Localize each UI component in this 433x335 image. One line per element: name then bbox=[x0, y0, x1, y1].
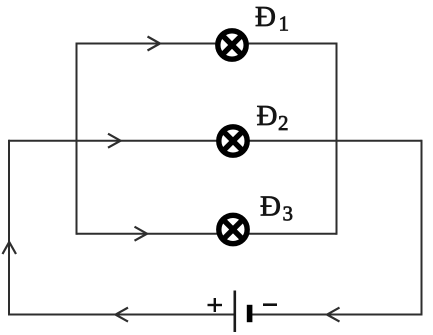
wire: outer right vertical (from middle branch down to battery - wire) bbox=[421, 140, 423, 316]
svg-text:Đ: Đ bbox=[260, 191, 281, 223]
lamp D2 (circle with X) bbox=[219, 127, 247, 155]
current arrow on bottom wire right, pointing left bbox=[327, 308, 340, 322]
wire: top branch left segment (node A to lamp D1) bbox=[77, 43, 219, 45]
svg-text:Đ: Đ bbox=[255, 1, 276, 33]
label D3 bbox=[260, 191, 293, 226]
lamp D1 (circle with X) bbox=[218, 31, 246, 59]
wire: outer left vertical (from middle branch down to battery + wire) bbox=[8, 140, 10, 316]
battery polarity label - bbox=[263, 303, 277, 306]
battery (cell): long positive plate bbox=[234, 291, 237, 333]
wire: bottom branch right segment (lamp D3 to node B) bbox=[248, 233, 337, 235]
wire: inner right vertical (connects three branches, node B) bbox=[336, 43, 338, 235]
wire: middle branch right segment bbox=[248, 140, 422, 142]
current arrow on top branch bbox=[148, 37, 161, 51]
wire: top branch right segment (lamp D1 to node B) bbox=[247, 43, 337, 45]
wire: bottom left segment (left vertical to battery + plate) bbox=[8, 314, 235, 316]
wire: middle branch (left node to right node, through lamp D2) bbox=[9, 140, 219, 142]
wire: bottom branch left segment (node A to lamp D3) bbox=[77, 233, 219, 235]
current arrow on bottom wire left, pointing left bbox=[116, 308, 129, 322]
svg-text:Đ: Đ bbox=[257, 100, 278, 132]
current arrow on bottom branch bbox=[135, 227, 148, 241]
label D2 bbox=[257, 100, 289, 135]
svg-text:1: 1 bbox=[279, 12, 290, 36]
wire: bottom right segment (battery - plate to right vertical) bbox=[252, 314, 423, 316]
current arrow on outer left vertical pointing up bbox=[3, 242, 17, 254]
svg-text:2: 2 bbox=[278, 111, 289, 135]
battery polarity label + bbox=[208, 298, 223, 312]
battery (cell): short thick negative plate bbox=[247, 305, 253, 322]
current arrow on middle branch bbox=[108, 134, 121, 148]
svg-text:3: 3 bbox=[283, 202, 294, 226]
wire: inner left vertical (connects three branches, node A) bbox=[76, 43, 78, 235]
label D1 bbox=[255, 1, 289, 36]
lamp D3 (circle with X) bbox=[219, 215, 247, 243]
